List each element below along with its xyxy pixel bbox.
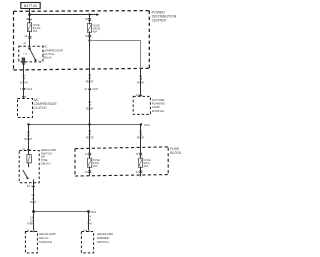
svg-text:C116: C116 [26, 88, 32, 91]
svg-text:SWITCH: SWITCH [97, 240, 109, 244]
svg-text:DELAY): DELAY) [41, 161, 51, 165]
svg-text:RD/WT: RD/WT [137, 137, 145, 140]
svg-text:RD/WT: RD/WT [86, 107, 94, 110]
svg-text:MODULE: MODULE [39, 240, 52, 244]
svg-text:40A: 40A [93, 29, 98, 33]
svg-text:RD/WT: RD/WT [24, 138, 32, 141]
svg-text:CENTER: CENTER [152, 19, 167, 23]
svg-text:BLOCK: BLOCK [170, 151, 182, 155]
svg-text:RD/OR: RD/OR [86, 136, 94, 139]
svg-text:S104: S104 [144, 124, 150, 127]
svg-text:BATT A0: BATT A0 [24, 4, 37, 8]
svg-text:RD/WT: RD/WT [86, 80, 94, 83]
svg-text:15A: 15A [144, 164, 149, 168]
svg-text:TAN: TAN [87, 223, 92, 226]
svg-text:MODULE: MODULE [152, 109, 164, 113]
svg-text:TA/BK: TA/BK [30, 201, 37, 204]
svg-text:1B: 1B [85, 18, 88, 21]
svg-text:CLUTCH: CLUTCH [34, 106, 48, 110]
svg-text:RELAY: RELAY [43, 55, 52, 59]
svg-text:S012: S012 [90, 211, 96, 214]
svg-text:C100: C100 [92, 88, 99, 91]
svg-text:15A: 15A [33, 29, 38, 33]
svg-text:DG/OR: DG/OR [20, 82, 28, 85]
svg-text:10A: 10A [93, 164, 98, 168]
svg-text:RD/WT: RD/WT [137, 82, 145, 85]
svg-text:TA/BK: TA/BK [27, 223, 34, 226]
